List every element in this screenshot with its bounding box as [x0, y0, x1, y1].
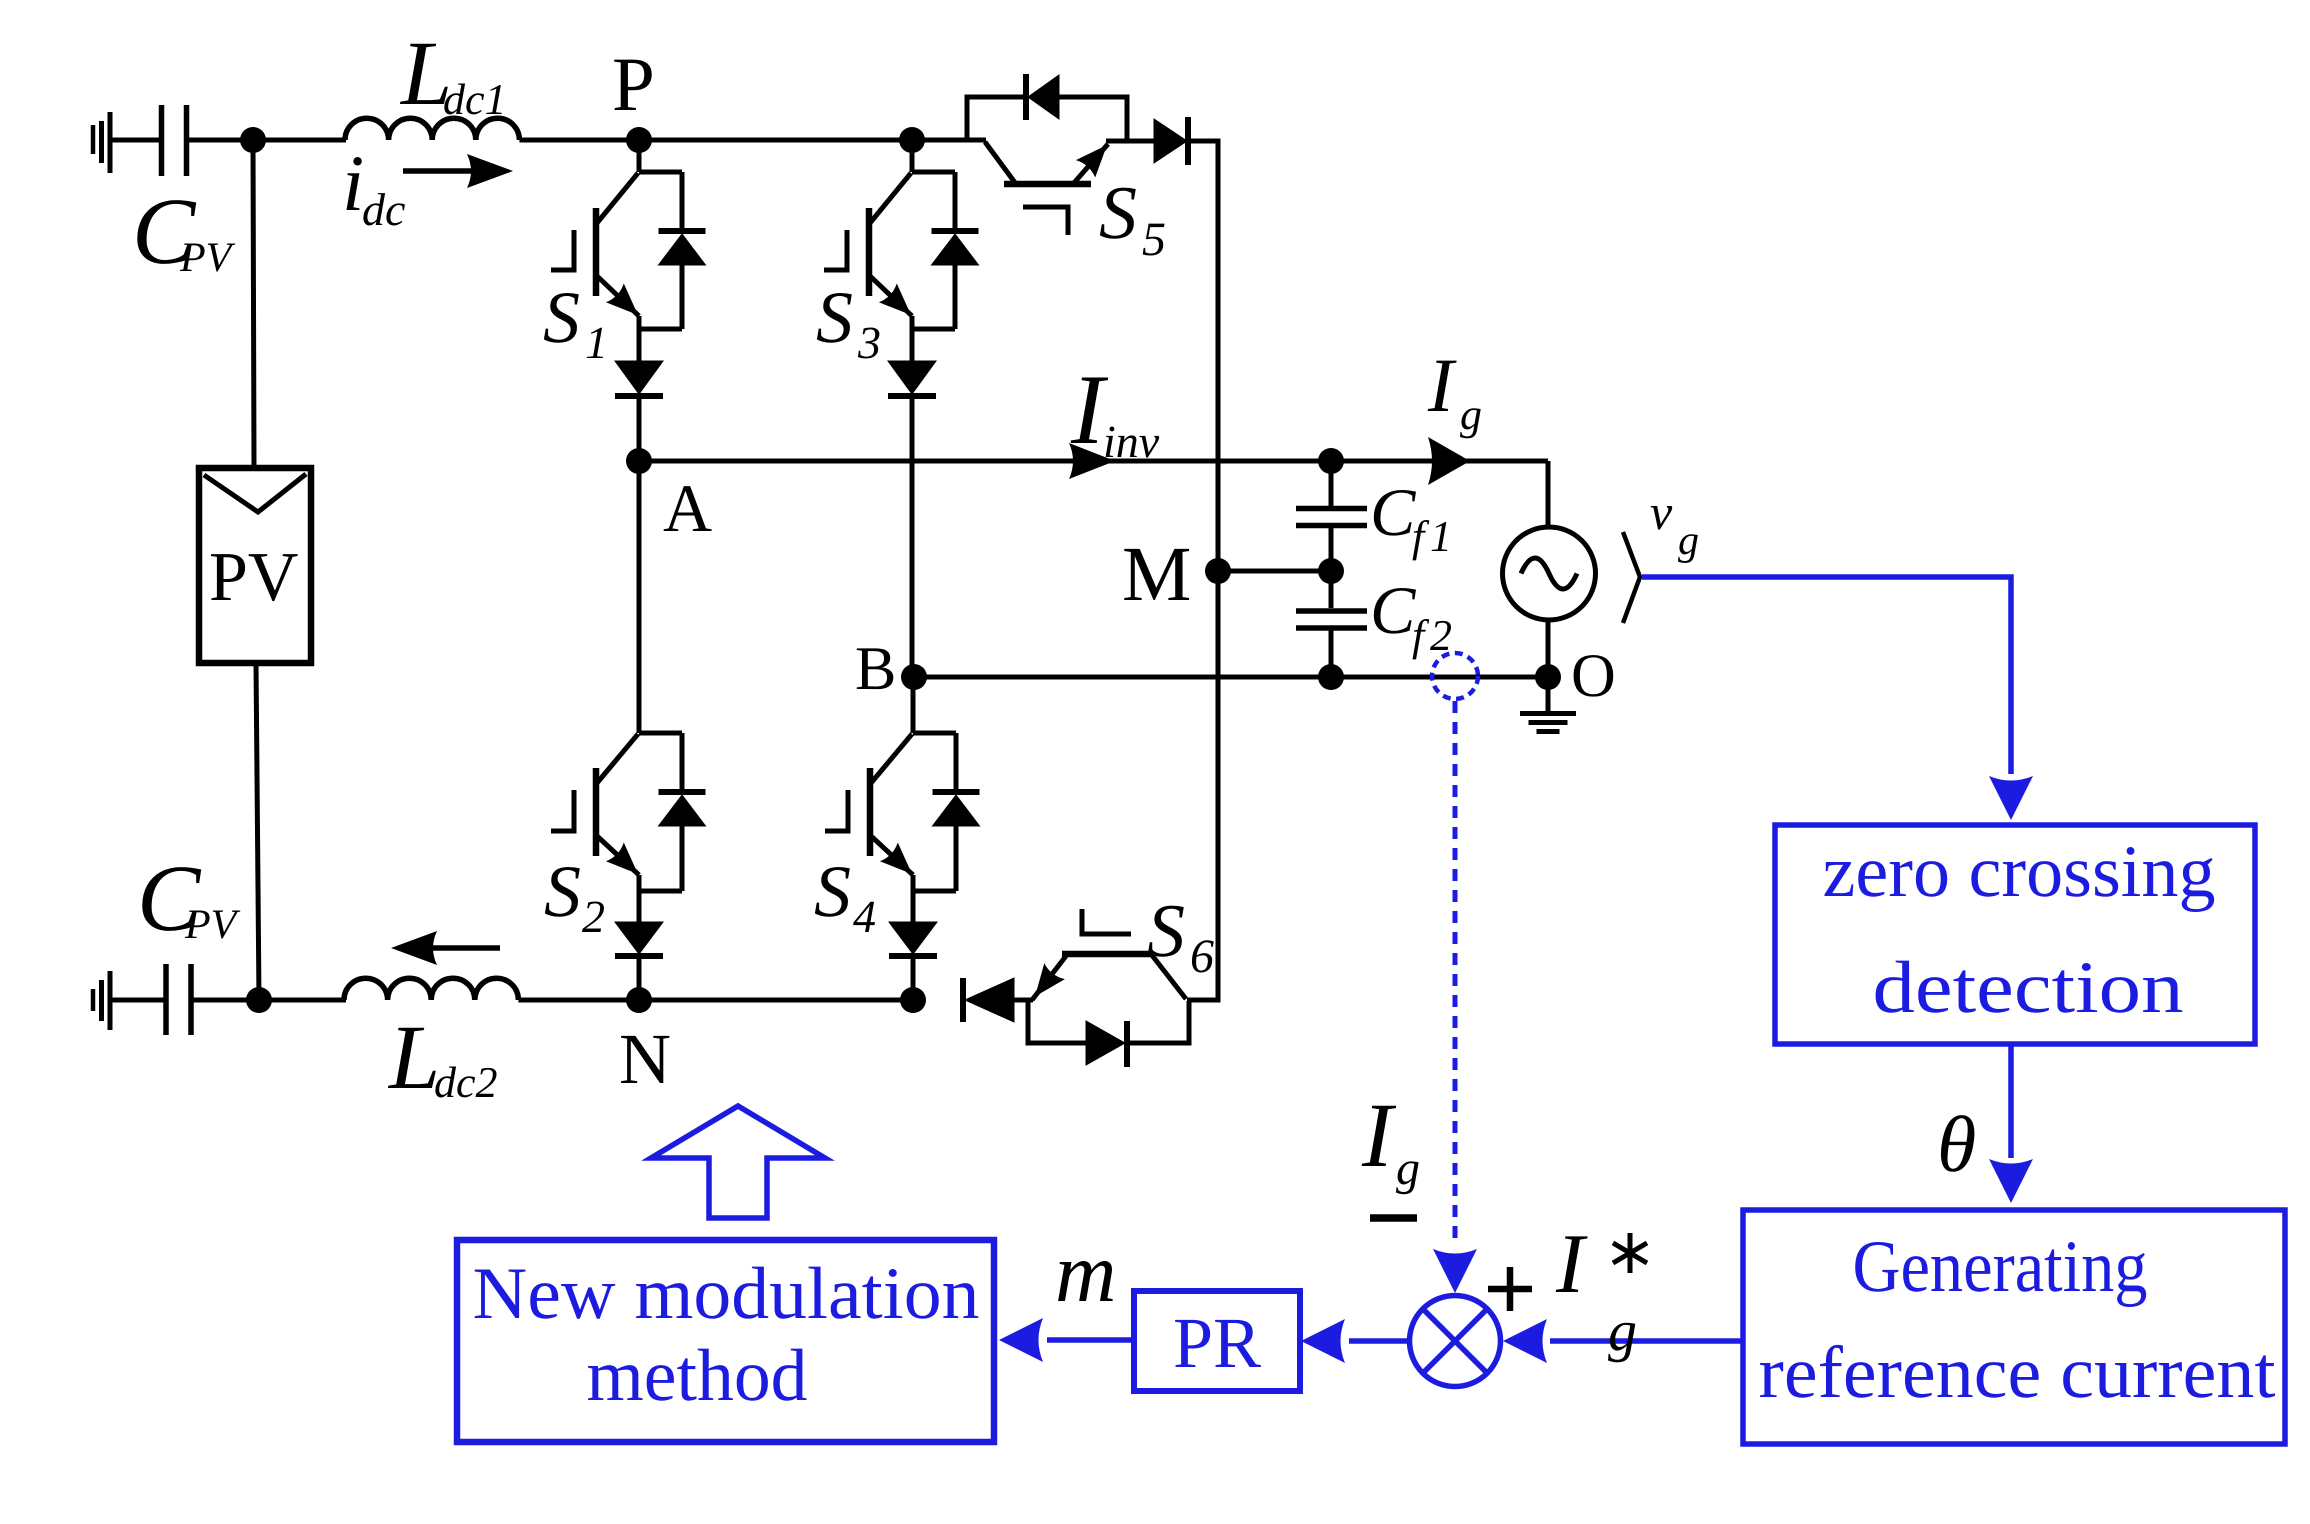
svg-text:Generating: Generating — [1853, 1226, 2148, 1308]
node B — [855, 635, 927, 703]
svg-text:S: S — [814, 851, 851, 933]
wire PV module to bottom node — [256, 663, 259, 1000]
v_g pick-off mark + label — [1623, 484, 1699, 623]
label+arrow i_dc — [342, 140, 513, 235]
arrow i return (leftward) — [391, 931, 500, 965]
svg-text:I: I — [1427, 342, 1457, 428]
svg-text:P: P — [612, 41, 655, 127]
diode series with S5 — [1154, 117, 1188, 165]
svg-text:PV: PV — [184, 902, 241, 948]
svg-text:zero crossing: zero crossing — [1823, 831, 2216, 913]
svg-text:g: g — [1460, 390, 1482, 439]
block PR — [1134, 1291, 1300, 1391]
transistor S3 (IGBT) — [816, 140, 955, 368]
wire generating to summer (blue) — [1503, 1319, 1743, 1363]
svg-text:A: A — [663, 470, 712, 546]
dashed feedback wire I_g (blue) — [1433, 701, 1477, 1293]
svg-text:M: M — [1122, 530, 1191, 617]
wire chassis to C_PV top — [112, 138, 162, 143]
svg-text:C: C — [1370, 474, 1416, 550]
wire PR to modulation block (blue) + label m — [999, 1226, 1134, 1362]
svg-text:method: method — [587, 1335, 808, 1417]
svg-text:i: i — [342, 140, 364, 228]
diode D1 antiparallel (S1) — [659, 172, 706, 329]
svg-text:detection: detection — [1873, 947, 2184, 1029]
diode series with S6 — [963, 978, 1033, 1022]
svg-text:4: 4 — [853, 891, 876, 942]
wire summer to PR (blue) — [1301, 1319, 1409, 1363]
svg-text:New modulation: New modulation — [473, 1253, 980, 1335]
svg-text:θ: θ — [1937, 1101, 1976, 1189]
svg-text:PV: PV — [179, 235, 236, 281]
wire L_dc1 to P and S3 node — [519, 138, 986, 143]
source v_g (grid) — [1503, 527, 1596, 620]
node A — [626, 448, 712, 546]
svg-text:5: 5 — [1142, 213, 1166, 266]
svg-text:inv: inv — [1103, 416, 1160, 467]
diode series with S4 — [889, 922, 937, 1000]
svg-text:S: S — [543, 277, 580, 359]
svg-text:C: C — [1370, 572, 1416, 648]
diode D4 antiparallel (S4) — [933, 733, 980, 891]
svg-text:B: B — [855, 635, 896, 703]
node junction dot (DC- / PV bottom) — [246, 987, 272, 1013]
diode series with S2 — [615, 922, 663, 1000]
diode D2 antiparallel (S2) — [659, 733, 706, 891]
inductor L_dc1 — [345, 22, 519, 140]
svg-text:3: 3 — [857, 317, 881, 368]
svg-text:1: 1 — [585, 317, 608, 368]
transistor S1 (IGBT) — [543, 140, 682, 368]
node filter midpoint — [1318, 558, 1344, 584]
arrow+label I_g (top) — [1427, 342, 1482, 485]
block zero crossing detection — [1775, 825, 2255, 1044]
svg-text:I: I — [1361, 1084, 1397, 1186]
node N — [619, 987, 671, 1099]
capacitor C_PV (top) — [132, 105, 236, 284]
summing junction — [1410, 1296, 1501, 1387]
block new modulation method — [457, 1240, 994, 1442]
wire corner to v_g source — [1546, 461, 1551, 528]
svg-text:N: N — [619, 1019, 671, 1099]
wire C_PV to node — [186, 138, 346, 143]
diode series with S3 + wire to B — [888, 361, 936, 677]
wire M to filter midpoint — [1218, 569, 1331, 574]
capacitor C_f1 — [1296, 461, 1452, 571]
transistor S2 (IGBT) — [544, 461, 682, 942]
wire right bus (S5 to S6) — [1187, 141, 1218, 1000]
capacitor C_f2 — [1296, 571, 1452, 677]
node C_f1 top — [1318, 448, 1344, 474]
svg-text:S: S — [544, 851, 581, 933]
svg-text:O: O — [1571, 642, 1616, 710]
block generating reference current — [1743, 1210, 2285, 1444]
svg-text:2: 2 — [582, 891, 605, 942]
svg-text:PV: PV — [209, 539, 298, 616]
svg-text:S: S — [816, 277, 853, 359]
svg-text:reference current: reference current — [1759, 1332, 2276, 1414]
node C_f2 bottom — [1318, 664, 1344, 690]
inductor L_dc2 — [344, 978, 518, 1108]
svg-text:g: g — [1608, 1298, 1637, 1363]
chassis reference symbol (top-left) — [93, 112, 110, 173]
label minus sign — [1370, 1214, 1417, 1222]
svg-text:S: S — [1147, 889, 1185, 973]
node O — [1535, 642, 1616, 710]
wire node to PV module — [253, 140, 254, 468]
label plus sign — [1488, 1267, 1532, 1311]
ground at O — [1520, 677, 1576, 732]
svg-text:S: S — [1099, 171, 1137, 255]
wire v_g to O — [1546, 620, 1551, 677]
transistor S6 (IGBT, horizontal) — [1032, 889, 1214, 1000]
wire B to O line — [914, 675, 1548, 680]
wire N to S4 bottom — [639, 998, 914, 1003]
svg-text:L: L — [387, 1006, 440, 1108]
svg-text:dc2: dc2 — [434, 1058, 498, 1107]
wire I_inv line (A to grid corner) — [639, 459, 1548, 464]
current sensor (dashed circle) — [1432, 653, 1478, 699]
diode series with S1 — [615, 361, 663, 461]
svg-text:g: g — [1396, 1142, 1420, 1195]
node P — [612, 41, 655, 153]
node M — [1122, 530, 1231, 617]
label I_g feedback — [1361, 1084, 1420, 1195]
svg-text:m: m — [1055, 1226, 1116, 1320]
label I_g* reference — [1555, 1217, 1647, 1363]
node junction dot (DC+ / PV top) — [240, 127, 266, 153]
capacitor C_PV (bottom) — [137, 845, 241, 1035]
svg-text:dc1: dc1 — [443, 75, 507, 124]
arrow+label I_inv — [1069, 354, 1160, 479]
svg-text:dc: dc — [362, 184, 405, 235]
diode D3 antiparallel (S3) — [932, 172, 979, 329]
wire C_PV bottom to node — [191, 998, 346, 1003]
svg-text:g: g — [1678, 518, 1699, 564]
node S3-top junction — [899, 127, 925, 153]
wire chassis to C_PV bottom — [112, 998, 167, 1003]
chassis reference symbol (bottom-left) — [93, 971, 110, 1030]
wire theta (blue) + label — [1937, 1044, 2033, 1203]
svg-text:1: 1 — [1430, 512, 1452, 561]
transistor S5 (IGBT, horizontal) — [912, 140, 1166, 266]
svg-text:6: 6 — [1190, 930, 1214, 983]
diode D6 antiparallel (S6) — [1028, 1000, 1189, 1067]
svg-text:PR: PR — [1173, 1303, 1261, 1383]
wire v_g to zero-crossing (blue) — [1642, 577, 2033, 820]
node S4-bottom junction — [900, 987, 926, 1013]
wire L_dc2 to N — [518, 998, 640, 1003]
transistor S4 (IGBT) — [814, 677, 956, 942]
diode D5 antiparallel (S5) — [967, 74, 1127, 139]
PV module — [199, 468, 311, 663]
svg-text:v: v — [1650, 484, 1673, 540]
svg-text:I: I — [1555, 1217, 1588, 1311]
hollow arrow to inverter (blue) — [651, 1106, 825, 1218]
